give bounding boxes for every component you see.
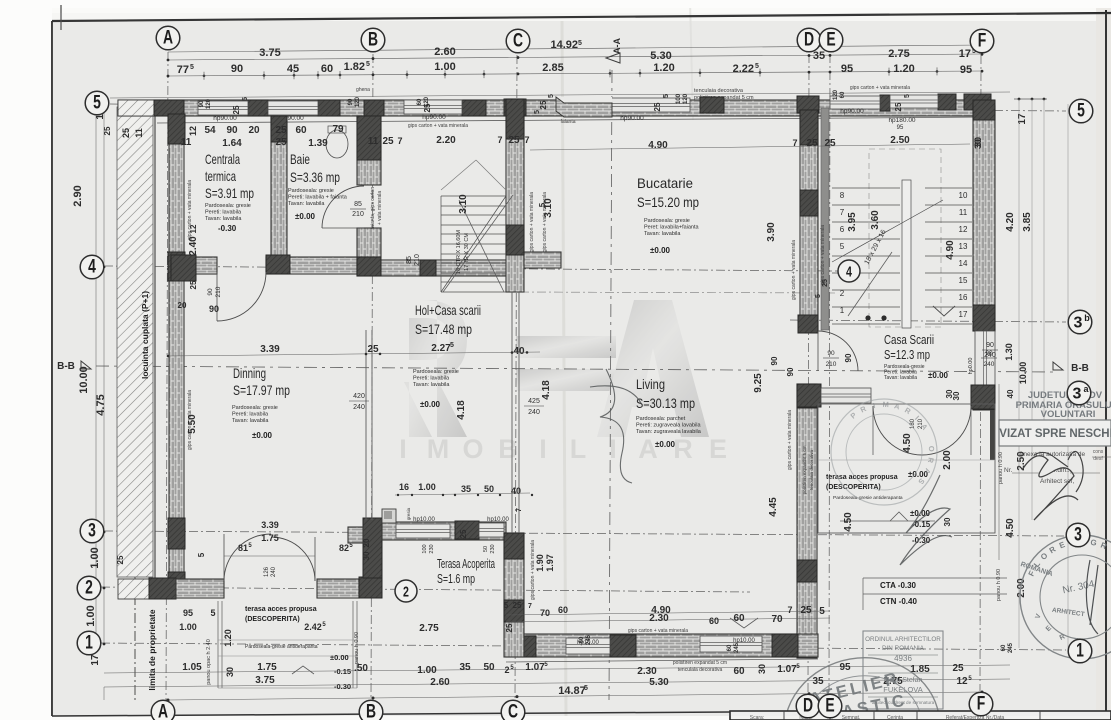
scan fold creases — [562, 21, 566, 716]
section line A-A vertical — [609, 70, 612, 700]
casa scarii staircase — [832, 180, 972, 328]
left terrace outline — [217, 601, 219, 688]
hol staircase — [441, 196, 506, 292]
interior wall horizontal (centrala/baie bottom) — [171, 257, 217, 274]
grid axis 4 horizontal — [104, 266, 838, 271]
slab opening dashed — [869, 149, 941, 327]
grid axis 3b horizontal — [790, 320, 1066, 322]
axis bubble 3 left — [80, 519, 104, 543]
grid axis 3a extension — [520, 292, 836, 293]
section marker A-A top — [606, 53, 620, 63]
axis bubble A bottom — [151, 700, 175, 720]
wall on axis D upper — [800, 110, 818, 331]
stamp judetul ilfov — [1016, 390, 1111, 420]
C axis pier at hol — [506, 257, 524, 292]
terrace french door arcs — [873, 406, 922, 455]
centrala door arc — [217, 272, 266, 321]
right exterior wall (axis F) — [973, 106, 995, 331]
round stamp over terrace — [831, 399, 937, 505]
grid axis 5 horizontal — [110, 104, 1066, 111]
axis bubble 2 inner — [395, 580, 417, 602]
axis bubble A top — [156, 26, 180, 50]
axis bubble 5 right — [1069, 99, 1093, 123]
axis bubble B bottom — [359, 700, 383, 720]
left exterior wall — [169, 116, 184, 597]
wall jog C-D — [556, 97, 612, 105]
section marker B-B right — [1053, 362, 1063, 370]
wall on axis C lower — [504, 533, 524, 657]
round stamp architect (bottom right) — [1020, 535, 1111, 659]
grid axis B vertical — [371, 54, 373, 700]
axis bubble 3b right — [1068, 310, 1092, 334]
axis bubble 2 left — [77, 576, 101, 600]
grid axis C vertical — [515, 55, 517, 700]
wall on axis D lower (living east) — [797, 384, 817, 658]
right wall window 90/240 — [975, 331, 995, 387]
opening lining axis C hol/living — [511, 292, 513, 533]
right terrace outline — [818, 404, 995, 533]
terrace steps bottom — [840, 520, 935, 522]
grid axis 3 horizontal — [104, 531, 1064, 536]
axis bubble 5 left — [85, 91, 109, 115]
E axis wall lining strip — [821, 108, 829, 330]
handwritten signature right — [1022, 456, 1078, 520]
title block table — [730, 711, 1111, 720]
opening lining axis B — [365, 330, 367, 520]
watermark REA IMOBILIARE — [399, 300, 727, 464]
terrace north wall — [797, 384, 821, 407]
top exterior wall — [118, 100, 990, 116]
page border frame — [52, 13, 1111, 21]
stamp vizat spre neschimbare — [999, 420, 1111, 446]
axis bubble 1 left — [77, 631, 101, 655]
axis bubble C bottom — [501, 700, 525, 720]
casa scarii door arc — [818, 331, 858, 371]
top wall piers — [154, 100, 184, 116]
wall on axis C upper — [506, 99, 524, 292]
living bottom wall — [506, 634, 818, 657]
axis bubble E bottom — [818, 694, 842, 718]
axis bubble E top — [819, 28, 843, 52]
axis bubble 3 right — [1066, 523, 1090, 547]
axis bubble F top — [970, 29, 994, 53]
neighbour house hatched strip (locuinta cuplata) — [117, 107, 153, 577]
grid axis 2 horizontal — [101, 587, 750, 592]
terrace steps marks — [292, 666, 314, 674]
right guide lines — [998, 384, 1000, 560]
axis bubble 4 left — [80, 255, 104, 279]
axis bubble 4 inner — [838, 260, 860, 282]
bottom dim rows living — [506, 611, 830, 615]
interior wall centrala/baie — [271, 116, 287, 257]
top dimension lines — [168, 45, 982, 52]
axis bubble F bottom — [969, 692, 993, 716]
dinning bottom wall — [118, 579, 149, 599]
dinning terrace door arcs — [224, 534, 271, 581]
grid axis A vertical — [166, 52, 168, 700]
grid axis 1 horizontal — [101, 643, 1066, 650]
gresia box — [382, 509, 396, 523]
axis bubble 3a right — [1067, 381, 1091, 405]
axis bubble 1 right — [1068, 639, 1092, 663]
bottom dim row 3 — [104, 679, 1010, 687]
axis bubble D top — [797, 28, 821, 52]
grid axis E vertical — [829, 54, 830, 693]
axis bubble D bottom — [796, 694, 820, 718]
axis bubble C top — [506, 29, 530, 53]
section line B-B horizontal — [96, 366, 1054, 372]
top wall windows — [198, 101, 248, 115]
top wall lining strip — [157, 117, 990, 123]
ordinul arhitectilor stamp box — [863, 631, 943, 709]
right wall thin panel — [990, 410, 995, 460]
WC oval in baie — [326, 130, 348, 158]
bottom dim row 2 — [104, 665, 1010, 673]
top wall corner hatch — [118, 100, 154, 116]
axis bubble B top — [361, 28, 385, 52]
left dims — [103, 104, 105, 644]
property line below hatch — [134, 577, 136, 700]
stair diagonals — [443, 195, 513, 292]
interior wall baie right — [357, 116, 381, 185]
baie door arc — [322, 186, 364, 228]
terasa acoperita canopy band — [363, 518, 382, 578]
grid axis F vertical — [980, 55, 981, 691]
grid axis D vertical — [808, 54, 809, 693]
atelier plastic round stamp — [773, 646, 951, 720]
